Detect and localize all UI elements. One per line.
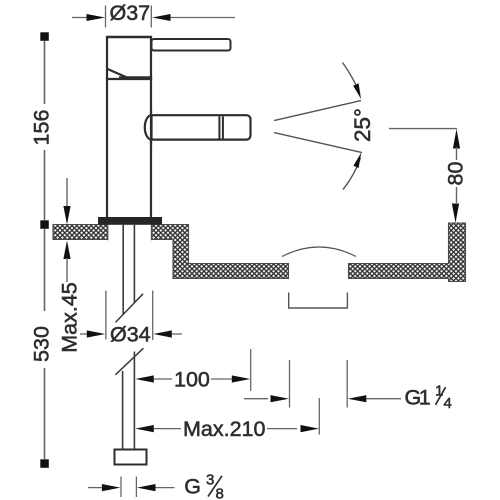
svg-text:3: 3 — [206, 472, 214, 489]
svg-text:Max.210: Max.210 — [183, 417, 266, 441]
svg-text:Max.45: Max.45 — [58, 282, 82, 353]
svg-text:G: G — [184, 475, 201, 499]
svg-text:530: 530 — [30, 326, 54, 362]
svg-text:8: 8 — [216, 486, 224, 500]
svg-text:25°: 25° — [350, 108, 375, 142]
svg-text:1: 1 — [419, 386, 431, 410]
svg-text:100: 100 — [174, 368, 210, 392]
svg-text:4: 4 — [444, 395, 452, 412]
svg-text:156: 156 — [30, 110, 54, 146]
svg-text:80: 80 — [444, 162, 468, 186]
svg-text:Ø37: Ø37 — [110, 1, 151, 25]
svg-text:Ø34: Ø34 — [110, 323, 151, 347]
